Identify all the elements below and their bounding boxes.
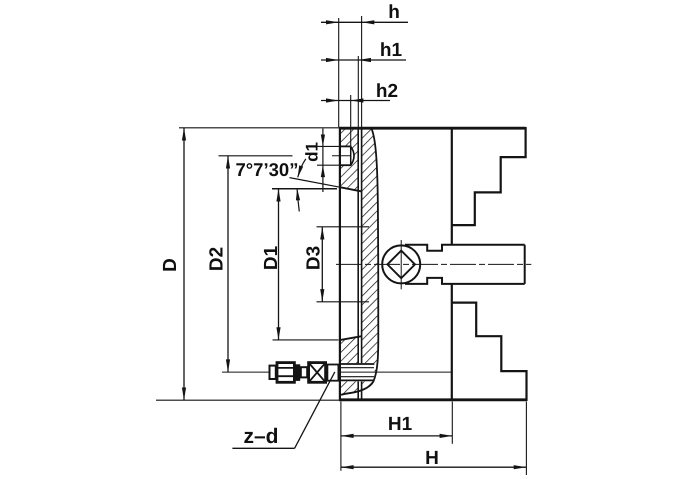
hole d1 drill point — [351, 146, 354, 165]
dimension D2 — [207, 156, 293, 372]
body front face lower — [451, 284, 453, 400]
screw collar — [295, 364, 300, 381]
screw hole (white cutout) — [341, 363, 375, 381]
dimension D1 — [261, 189, 339, 340]
callout z-d — [232, 372, 334, 448]
body top edge — [339, 127, 526, 130]
dimension h1 — [321, 40, 406, 127]
dimension h — [321, 2, 408, 127]
svg-text:h: h — [388, 2, 400, 23]
mounting hole d1 (white cutout) — [340, 146, 354, 165]
bore taper edge top — [340, 187, 362, 191]
flange hatched cross-section — [340, 128, 379, 400]
screw tip — [270, 366, 276, 379]
pinion shaft (white) — [402, 245, 525, 284]
dimension H — [341, 402, 527, 476]
flange right curved edge — [341, 129, 378, 395]
pinion vertical centerline — [400, 240, 402, 289]
svg-text:D2: D2 — [207, 247, 228, 271]
svg-text:H1: H1 — [388, 414, 413, 435]
svg-text:7°7’30”: 7°7’30” — [236, 159, 299, 180]
pinion shaft right end — [524, 245, 526, 284]
bottom jaw steps — [452, 303, 527, 401]
angle arc lower stroke with arrow — [297, 189, 299, 212]
angle arc upper stroke with arrow — [298, 159, 306, 177]
screw washer at face — [327, 365, 338, 381]
screw hex head — [277, 363, 294, 383]
body front face upper — [451, 128, 453, 244]
hole d1 centerline — [332, 155, 350, 157]
central bore (white) — [340, 187, 358, 340]
dimension h2 — [321, 81, 398, 146]
svg-text:D: D — [160, 258, 181, 272]
pinion shaft bottom edge with groove — [405, 278, 525, 284]
body bottom edge — [339, 398, 527, 401]
hole d1 end face (h2 reference) — [350, 146, 352, 166]
bore taper edge bottom — [340, 336, 362, 340]
svg-text:D1: D1 — [261, 245, 282, 270]
pinion horizontal centerline — [336, 263, 531, 265]
back mounting face — [339, 127, 341, 400]
svg-text:z–d: z–d — [243, 425, 278, 448]
svg-text:h2: h2 — [376, 81, 398, 102]
svg-text:D3: D3 — [304, 246, 325, 270]
screw hole bottom wall — [341, 379, 375, 381]
hole d1 bottom wall — [340, 164, 351, 166]
pinion shaft top edge with groove — [405, 245, 525, 251]
hole d1 top wall — [340, 145, 351, 147]
dimension H1 — [341, 402, 452, 471]
svg-text:h1: h1 — [380, 40, 403, 61]
dimension d1 — [303, 129, 342, 193]
dimension D3 — [304, 227, 370, 302]
top jaw steps — [452, 127, 526, 225]
screw z-d centerline / D2 lower extension — [222, 371, 452, 373]
svg-text:H: H — [425, 448, 439, 469]
taper extension line for angle — [290, 178, 341, 188]
body/backplate interface verticals — [357, 128, 359, 400]
pinion head circle — [382, 245, 420, 283]
screw square key with cross — [309, 363, 326, 383]
joint gap between back plate and body — [359, 128, 361, 400]
screw hole thread lines — [341, 367, 374, 369]
screw shank — [301, 367, 307, 377]
dimension D — [156, 128, 341, 400]
screw hole top wall — [341, 363, 375, 365]
pinion square socket — [387, 251, 415, 279]
